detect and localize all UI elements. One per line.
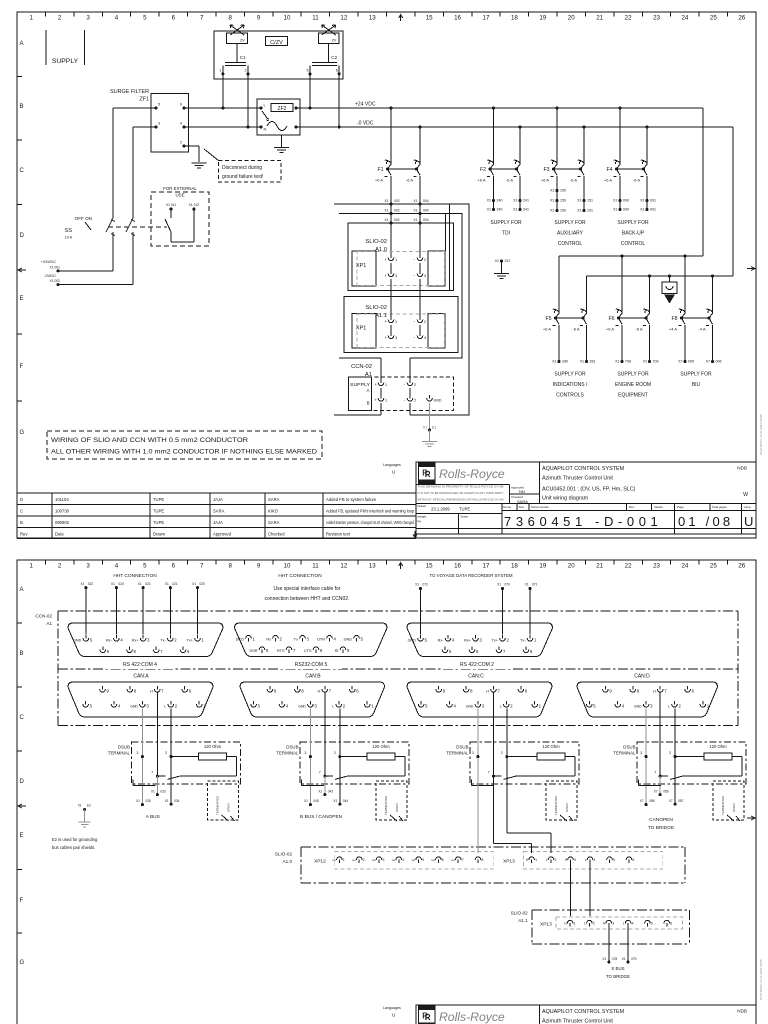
svg-text:E2 is used for grounding: E2 is used for grounding: [52, 837, 98, 842]
svg-text:9: 9: [609, 689, 612, 694]
svg-text:N: N: [264, 127, 267, 132]
svg-text:C1: C1: [240, 55, 246, 60]
svg-text:DSR: DSR: [249, 649, 257, 653]
svg-text:5: 5: [90, 704, 93, 709]
svg-text:F: F: [20, 364, 24, 370]
svg-text:+: +: [375, 382, 378, 387]
svg-text:240: 240: [497, 199, 503, 203]
svg-text:CAN:D: CAN:D: [634, 674, 650, 680]
svg-text:6: 6: [189, 689, 192, 694]
svg-text:Languages: Languages: [383, 1006, 401, 1010]
svg-text:7: 7: [151, 770, 153, 774]
svg-text:6: 6: [633, 858, 635, 862]
svg-text:006: 006: [716, 360, 722, 364]
svg-text:SLIO-02: SLIO-02: [365, 305, 387, 311]
svg-text:4: 4: [286, 704, 289, 709]
svg-text:20: 20: [568, 563, 575, 570]
svg-text:A1.0: A1.0: [283, 859, 293, 864]
svg-text:L: L: [500, 705, 502, 709]
svg-text:23.1.2009: 23.1.2009: [431, 507, 450, 512]
svg-text:Scale: Scale: [461, 515, 469, 519]
svg-text:GND: GND: [73, 639, 82, 643]
svg-text:C: C: [20, 168, 25, 174]
svg-text:3: 3: [86, 15, 90, 22]
svg-text:USE: USE: [175, 193, 184, 198]
svg-text:6: 6: [525, 689, 528, 694]
svg-text:2: 2: [424, 320, 426, 324]
svg-text:070: 070: [505, 583, 511, 587]
svg-text:ret: ret: [352, 858, 356, 862]
svg-text:+4 A: +4 A: [669, 327, 677, 332]
svg-text:8: 8: [301, 689, 304, 694]
svg-text:F5: F5: [545, 316, 551, 322]
svg-text:RTS: RTS: [277, 649, 285, 653]
svg-text:ret: ret: [332, 858, 336, 862]
svg-text:TO VOYAGE DATA RECORDER SYSTEM: TO VOYAGE DATA RECORDER SYSTEM: [429, 573, 512, 578]
svg-text:X1: X1: [413, 209, 417, 213]
svg-text:G: G: [20, 430, 25, 436]
svg-text:120 Ohm: 120 Ohm: [709, 744, 727, 749]
svg-text:3: 3: [383, 858, 385, 862]
svg-text:8: 8: [320, 648, 323, 653]
svg-text:X1: X1: [580, 360, 584, 364]
svg-text:G: G: [20, 960, 25, 966]
svg-text:19: 19: [539, 563, 546, 570]
svg-text:2: 2: [414, 399, 416, 403]
svg-text:R: R: [422, 468, 428, 477]
svg-text:5: 5: [613, 858, 615, 862]
svg-text:SARA: SARA: [268, 520, 280, 525]
svg-text:X1: X1: [643, 360, 647, 364]
svg-text:3: 3: [146, 704, 149, 709]
svg-text:5: 5: [158, 103, 160, 107]
svg-text:033: 033: [160, 789, 166, 793]
svg-text:W: W: [743, 492, 748, 498]
svg-text:TERMINAL: TERMINAL: [276, 751, 299, 756]
svg-text:26: 26: [738, 563, 745, 570]
svg-text:120 Ohm: 120 Ohm: [204, 744, 222, 749]
svg-text:U: U: [392, 470, 395, 475]
svg-text:002: 002: [394, 218, 400, 222]
svg-text:X1: X1: [413, 199, 417, 203]
svg-text:7: 7: [462, 858, 464, 862]
svg-text:X1: X1: [136, 799, 140, 803]
svg-text:23: 23: [653, 15, 660, 22]
svg-text:4: 4: [115, 563, 119, 570]
svg-text:RS 422:COM 4: RS 422:COM 4: [123, 662, 157, 668]
svg-text:26: 26: [738, 15, 745, 22]
svg-text:-: -: [414, 273, 416, 278]
svg-text:DSUB: DSUB: [456, 745, 468, 750]
svg-text:H: H: [526, 858, 529, 862]
svg-text:4: 4: [180, 122, 182, 126]
svg-text:B: B: [20, 104, 24, 110]
svg-text:SUPPLY FOR: SUPPLY FOR: [554, 372, 586, 378]
svg-text:OFF ON: OFF ON: [75, 216, 92, 221]
svg-text:056: 056: [663, 789, 669, 793]
svg-text:9: 9: [107, 649, 110, 654]
svg-text:+6 A: +6 A: [477, 178, 485, 183]
svg-text:5: 5: [90, 638, 93, 643]
svg-text:-: -: [404, 398, 406, 403]
svg-text:1: 1: [371, 704, 374, 709]
svg-text:5: 5: [307, 69, 309, 73]
svg-text:ground failure test!: ground failure test!: [222, 174, 263, 180]
svg-text:005: 005: [688, 360, 694, 364]
svg-text:TERMINAL: TERMINAL: [613, 751, 636, 756]
svg-text:Tx+: Tx+: [187, 639, 194, 643]
svg-text:15: 15: [426, 15, 433, 22]
svg-text:2: 2: [593, 922, 595, 926]
svg-text:DSUB: DSUB: [118, 745, 130, 750]
svg-text:GND: GND: [408, 639, 417, 643]
svg-text:4: 4: [452, 638, 455, 643]
svg-text:2: 2: [175, 704, 178, 709]
svg-text:9: 9: [274, 689, 277, 694]
svg-text:R: R: [422, 1011, 428, 1020]
svg-text:3: 3: [147, 638, 150, 643]
svg-text:X1: X1: [550, 189, 554, 193]
svg-text:1: 1: [574, 922, 576, 926]
svg-text:045: 045: [313, 799, 319, 803]
svg-text:150: 150: [560, 209, 566, 213]
svg-text:SUPPLY FOR: SUPPLY FOR: [617, 220, 649, 226]
svg-text:090902: 090902: [55, 520, 70, 525]
svg-text:Group: Group: [503, 505, 511, 509]
svg-text:2: 2: [245, 69, 247, 73]
svg-text:ret: ret: [451, 858, 455, 862]
svg-text:058: 058: [649, 799, 655, 803]
svg-text:4: 4: [402, 858, 404, 862]
svg-text:044: 044: [343, 799, 349, 803]
svg-text:100730: 100730: [55, 509, 70, 514]
svg-text:24: 24: [681, 563, 688, 570]
svg-text:+6 A: +6 A: [543, 327, 551, 332]
svg-text:Tx-: Tx-: [520, 639, 526, 643]
svg-text:H: H: [603, 922, 606, 926]
svg-text:BIU: BIU: [692, 382, 701, 388]
svg-text:+: +: [385, 319, 388, 324]
svg-text:DSUB: DSUB: [623, 745, 635, 750]
svg-text:L: L: [584, 922, 586, 926]
svg-text:CONTROLS: CONTROLS: [556, 393, 584, 399]
svg-text:SURGE FILTER: SURGE FILTER: [110, 89, 149, 95]
svg-text:X1: X1: [487, 199, 491, 203]
svg-text:281: 281: [590, 360, 596, 364]
svg-text:A1.1: A1.1: [518, 918, 528, 923]
svg-text:NDB: NDB: [737, 1009, 747, 1014]
svg-text:035: 035: [145, 799, 151, 803]
svg-text:JAJA: JAJA: [213, 520, 223, 525]
svg-text:9: 9: [443, 689, 446, 694]
svg-text:7: 7: [293, 648, 296, 653]
svg-text:ACU0452.001 ; (DV, US, FP, Hm,: ACU0452.001 ; (DV, US, FP, Hm, SLC): [542, 487, 636, 493]
svg-text:2: 2: [334, 751, 336, 755]
svg-text:2: 2: [165, 751, 167, 755]
svg-text:3: 3: [574, 858, 576, 862]
svg-text:XP13: XP13: [503, 859, 515, 865]
svg-text:7: 7: [329, 689, 332, 694]
svg-text:1: 1: [202, 638, 205, 643]
svg-text:SARA: SARA: [213, 509, 225, 514]
svg-text:TUPE: TUPE: [153, 509, 164, 514]
svg-text:Approved: Approved: [213, 532, 232, 537]
svg-text:8: 8: [134, 649, 137, 654]
svg-text:24: 24: [681, 15, 688, 22]
svg-text:1: 1: [253, 637, 256, 642]
svg-text:X1: X1: [550, 199, 554, 203]
svg-text:A: A: [20, 587, 24, 593]
svg-text:6: 6: [180, 103, 182, 107]
svg-text:X1: X1: [613, 199, 617, 203]
svg-text:1: 1: [29, 15, 33, 22]
svg-text:25: 25: [710, 563, 717, 570]
svg-text:H: H: [150, 690, 153, 694]
svg-text:1: 1: [219, 69, 221, 73]
svg-text:13: 13: [369, 15, 376, 22]
svg-text:connection between HHT and CCN: connection between HHT and CCN02.: [265, 596, 350, 602]
svg-text:X1: X1: [602, 957, 606, 961]
svg-text:2: 2: [343, 704, 346, 709]
svg-text:bus cables pair shields.: bus cables pair shields.: [52, 845, 96, 850]
svg-text:8: 8: [228, 563, 232, 570]
svg-text:KIKO: KIKO: [268, 509, 279, 514]
svg-text:3: 3: [314, 704, 317, 709]
svg-text:2: 2: [510, 704, 513, 709]
svg-text:D: D: [20, 779, 25, 785]
svg-text:8: 8: [476, 649, 479, 654]
svg-text:Rx+: Rx+: [464, 639, 472, 643]
svg-text:X1: X1: [78, 804, 82, 808]
svg-text:X1: X1: [384, 199, 388, 203]
svg-text:C/ZV: C/ZV: [270, 40, 283, 46]
svg-text:B: B: [20, 520, 23, 525]
svg-text:Lang: Lang: [744, 505, 751, 509]
svg-text:E1: E1: [432, 426, 436, 430]
svg-text:DTR: DTR: [317, 638, 325, 642]
svg-text:Date: Date: [55, 532, 65, 537]
svg-text:X1: X1: [423, 426, 427, 430]
svg-text:01 /08: 01 /08: [678, 514, 733, 529]
svg-text:Drawn: Drawn: [418, 504, 427, 508]
svg-text:CAN:C: CAN:C: [468, 674, 484, 680]
svg-text:AUXILIARY: AUXILIARY: [557, 231, 584, 237]
svg-text:3: 3: [650, 704, 653, 709]
svg-text:5: 5: [425, 704, 428, 709]
svg-text:TO BRIDGE: TO BRIDGE: [606, 974, 630, 979]
svg-text:X1: X1: [413, 218, 417, 222]
svg-text:2: 2: [424, 258, 426, 262]
svg-text:20: 20: [568, 15, 575, 22]
svg-text:X1: X1: [80, 582, 84, 586]
svg-text:IT IS NOT TO BE REPRODUCED OR: IT IS NOT TO BE REPRODUCED OR SHOWN TO A…: [418, 491, 504, 495]
svg-text:TERMINATED: TERMINATED: [384, 795, 388, 815]
svg-text:5: 5: [258, 704, 261, 709]
svg-text:9: 9: [257, 563, 261, 570]
svg-text:Rx-: Rx-: [106, 639, 113, 643]
svg-text:+24 VDC: +24 VDC: [355, 102, 376, 108]
svg-text:1: 1: [385, 383, 387, 387]
svg-text:-4 A: -4 A: [698, 327, 705, 332]
svg-text:AQUAPILOT CONTROL SYSTEM: AQUAPILOT CONTROL SYSTEM: [542, 1009, 625, 1015]
svg-text:INDICATIONS /: INDICATIONS /: [553, 382, 588, 388]
svg-text:4: 4: [594, 858, 596, 862]
svg-text:X1: X1: [552, 360, 556, 364]
svg-text:Unit wiring diagram: Unit wiring diagram: [542, 496, 589, 502]
svg-text:-6 A: -6 A: [406, 178, 413, 183]
svg-text:6: 6: [266, 648, 269, 653]
svg-text:X1: X1: [550, 209, 554, 213]
svg-text:Added FB, updated PM's interlo: Added FB, updated PM's interlock and war…: [326, 509, 415, 514]
svg-text:091: 091: [650, 208, 656, 212]
svg-text:RS 422:COM 2: RS 422:COM 2: [460, 662, 494, 668]
svg-text:E2: E2: [87, 804, 91, 808]
svg-text:X1 012: X1 012: [189, 203, 200, 207]
svg-text:18: 18: [511, 563, 518, 570]
svg-text:+6 A: +6 A: [606, 327, 614, 332]
svg-text:057: 057: [678, 799, 684, 803]
svg-text:043: 043: [328, 789, 334, 793]
svg-text:240: 240: [497, 208, 503, 212]
svg-text:L: L: [332, 705, 334, 709]
svg-text:241: 241: [523, 199, 529, 203]
svg-text:S BUS: S BUS: [611, 966, 624, 971]
svg-text:ENGINE ROOM: ENGINE ROOM: [615, 382, 651, 388]
svg-text:GND: GND: [344, 638, 353, 642]
svg-text:X1: X1: [384, 209, 388, 213]
svg-text:HHT CONNECTION: HHT CONNECTION: [113, 573, 157, 579]
svg-text:16: 16: [454, 15, 461, 22]
svg-text:TERMINATED: TERMINATED: [554, 795, 558, 815]
svg-text:Added FB to system failure: Added FB to system failure: [326, 497, 377, 502]
svg-text:EQUIPMENT: EQUIPMENT: [618, 393, 648, 399]
svg-text:8: 8: [470, 689, 473, 694]
svg-text:SLIO-02: SLIO-02: [511, 911, 529, 916]
svg-text:A: A: [367, 388, 370, 393]
svg-text:2: 2: [669, 751, 671, 755]
svg-text:3: 3: [307, 637, 310, 642]
svg-text:JAJA: JAJA: [213, 497, 223, 502]
svg-text:ALL OTHER WIRING WITH 1.0 mm2: ALL OTHER WIRING WITH 1.0 mm2 CONDUCTOR …: [51, 449, 318, 456]
svg-text:OPEN: OPEN: [565, 803, 569, 812]
svg-text:X1: X1: [497, 583, 501, 587]
svg-text:7: 7: [664, 689, 667, 694]
svg-text:22: 22: [625, 563, 632, 570]
svg-text:Page: Page: [677, 505, 684, 509]
svg-text:13: 13: [369, 563, 376, 570]
svg-text:CONTROL: CONTROL: [621, 241, 646, 247]
svg-text:17: 17: [483, 563, 490, 570]
svg-text:GND: GND: [466, 705, 474, 709]
svg-text:B: B: [20, 651, 24, 657]
svg-text:1: 1: [534, 638, 537, 643]
svg-text:SUPPLY FOR: SUPPLY FOR: [554, 220, 586, 226]
svg-text:-0VDC: -0VDC: [44, 273, 56, 278]
svg-text:Languages: Languages: [383, 463, 401, 467]
svg-text:L: L: [668, 705, 670, 709]
svg-text:TUPE: TUPE: [459, 507, 470, 512]
svg-text:-: -: [414, 335, 416, 340]
svg-text:Azimuth Thruster Control Unit: Azimuth Thruster Control Unit: [542, 476, 613, 482]
svg-text:072: 072: [423, 583, 429, 587]
svg-text:ZV: ZV: [240, 39, 245, 43]
svg-text:2: 2: [174, 638, 177, 643]
svg-text:090: 090: [623, 199, 629, 203]
svg-text:10 A: 10 A: [65, 236, 73, 240]
svg-text:-: -: [404, 382, 406, 387]
svg-text:CCN-02: CCN-02: [35, 614, 52, 619]
svg-text:F6: F6: [608, 316, 614, 322]
svg-text:X1 002: X1 002: [50, 279, 61, 283]
svg-text:Tx: Tx: [294, 638, 298, 642]
svg-text:Azimuth Thruster Control Unit: Azimuth Thruster Control Unit: [542, 1019, 613, 1024]
svg-text:9: 9: [107, 689, 110, 694]
svg-text:+: +: [385, 273, 388, 278]
svg-text:RI: RI: [335, 649, 339, 653]
svg-text:OPEN: OPEN: [732, 803, 736, 812]
svg-text:2: 2: [679, 704, 682, 709]
svg-text:708: 708: [625, 360, 631, 364]
svg-text:L: L: [546, 858, 548, 862]
svg-text:A1.0: A1.0: [375, 247, 387, 253]
svg-text:1: 1: [343, 858, 345, 862]
svg-text:5: 5: [361, 637, 364, 642]
svg-text:090: 090: [623, 208, 629, 212]
svg-text:020: 020: [200, 582, 206, 586]
svg-text:+: +: [385, 257, 388, 262]
svg-text:SUPPLY FOR: SUPPLY FOR: [617, 372, 649, 378]
svg-text:-: -: [414, 319, 416, 324]
svg-text:1: 1: [539, 704, 542, 709]
svg-text:2: 2: [280, 637, 283, 642]
svg-text:Disconnect during: Disconnect during: [222, 165, 262, 171]
svg-text:034: 034: [174, 799, 180, 803]
svg-text:3: 3: [304, 751, 306, 755]
svg-text:X7: X7: [678, 360, 682, 364]
svg-text:X1: X1: [525, 583, 529, 587]
svg-text:Rolls-Royce: Rolls-Royce: [439, 467, 505, 481]
svg-text:3: 3: [640, 751, 642, 755]
svg-text:F4: F4: [606, 167, 612, 173]
svg-text:709: 709: [653, 360, 659, 364]
svg-text:Rolls-Royce: Rolls-Royce: [439, 1010, 505, 1024]
svg-text:X7: X7: [640, 799, 644, 803]
svg-text:F3: F3: [543, 167, 549, 173]
svg-text:4: 4: [622, 704, 625, 709]
svg-text:2: 2: [58, 15, 62, 22]
svg-text:6: 6: [172, 563, 176, 570]
svg-text:004: 004: [423, 209, 429, 213]
svg-text:NN: NN: [519, 489, 525, 494]
svg-text:16: 16: [454, 563, 461, 570]
svg-text:DSUB: DSUB: [286, 745, 298, 750]
svg-text:DCD: DCD: [236, 638, 244, 642]
svg-text:HHT CONNECTION: HHT CONNECTION: [278, 573, 322, 579]
svg-text:9: 9: [257, 15, 261, 22]
svg-text:F: F: [20, 898, 24, 904]
svg-text:+: +: [375, 398, 378, 403]
svg-text:151: 151: [587, 209, 593, 213]
svg-text:F2: F2: [480, 167, 486, 173]
svg-text:7: 7: [160, 649, 163, 654]
svg-text:SLIO-02: SLIO-02: [275, 852, 293, 857]
svg-text:F8: F8: [671, 316, 677, 322]
svg-text:X1: X1: [304, 799, 308, 803]
svg-text:6: 6: [336, 69, 338, 73]
svg-text:BACK-UP: BACK-UP: [622, 231, 645, 237]
svg-text:3: 3: [480, 638, 483, 643]
svg-text:H: H: [653, 690, 656, 694]
